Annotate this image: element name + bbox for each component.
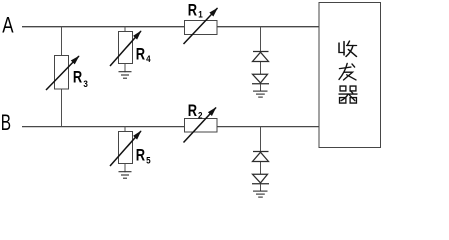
svg-text:B: B xyxy=(1,110,11,135)
svg-text:R: R xyxy=(73,69,82,87)
svg-text:A: A xyxy=(2,13,13,38)
svg-text:1: 1 xyxy=(198,10,203,20)
svg-text:R: R xyxy=(136,45,145,63)
svg-text:R: R xyxy=(136,147,145,165)
svg-text:4: 4 xyxy=(146,54,151,64)
svg-text:2: 2 xyxy=(198,110,203,120)
svg-text:5: 5 xyxy=(146,156,151,166)
svg-text:R: R xyxy=(188,102,197,120)
svg-text:R: R xyxy=(188,1,197,19)
svg-text:3: 3 xyxy=(83,79,88,89)
